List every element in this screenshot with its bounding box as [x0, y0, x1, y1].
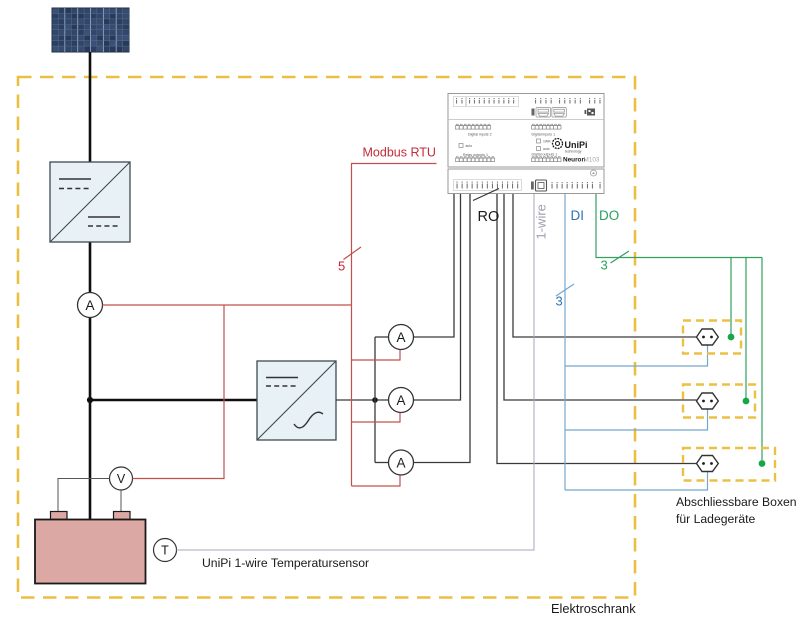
svg-text:Modbus RTU: Modbus RTU — [363, 146, 436, 160]
svg-text:A: A — [396, 393, 405, 408]
temperature sensor T1 — [154, 539, 177, 562]
DC/DC converter U1 — [50, 162, 130, 242]
svg-text:V: V — [117, 472, 126, 486]
wire Modbus branch to A1 — [352, 350, 401, 360]
svg-text:technology: technology — [565, 150, 582, 154]
svg-text:DO: DO — [599, 208, 619, 223]
bus width marker 3 (DI) — [556, 284, 574, 296]
bus width marker 5 — [344, 247, 362, 260]
socket outlet X2 — [697, 393, 719, 409]
wire DI socket 3 — [565, 472, 708, 491]
wire bus to A3 — [375, 462, 389, 464]
wire DO lamp 2 — [745, 258, 747, 399]
bus width marker 3 (DO) — [611, 251, 630, 263]
svg-text:M103: M103 — [584, 157, 600, 164]
wire relay output to socket 2 — [504, 194, 697, 400]
svg-text:3: 3 — [601, 258, 608, 273]
lockable box 3 — [683, 448, 775, 481]
wire Modbus branch to voltmeter — [133, 305, 225, 479]
wire Modbus branch to A3 — [352, 475, 401, 486]
wire A3 to relay output — [414, 194, 471, 463]
svg-text:UniPi: UniPi — [565, 140, 588, 150]
voltmeter V1 — [110, 467, 133, 490]
svg-text:3: 3 — [556, 294, 563, 309]
indicator lamp L2 — [743, 398, 750, 405]
socket outlet X1 — [697, 329, 719, 345]
wire node to inverter input — [89, 399, 257, 402]
svg-text:UniPi 1-wire Temperatursensor: UniPi 1-wire Temperatursensor — [202, 556, 369, 570]
svg-text:Digital inputs 1: Digital inputs 1 — [532, 133, 556, 137]
wire Modbus RTU bus (red) — [352, 164, 437, 487]
wire ammeter to battery — [89, 318, 92, 520]
wire DI socket 2 — [565, 409, 708, 430]
indicator lamp L3 — [759, 460, 766, 467]
PLC UniPi Neuron M103 — [448, 94, 604, 194]
indicator lamp L1 — [728, 334, 735, 341]
wire DO lamp 1 — [730, 258, 732, 335]
wire A1 to relay output — [414, 194, 455, 337]
svg-text:Digital outputs 1: Digital outputs 1 — [532, 152, 558, 156]
wire voltmeter to battery - terminal — [120, 490, 122, 512]
wire relay output to socket 1 — [513, 194, 697, 337]
ammeter A2 — [389, 388, 414, 413]
wire Modbus branch to A2 — [352, 413, 401, 422]
socket outlet X3 — [697, 456, 719, 472]
wire bus to A1 — [375, 336, 389, 338]
svg-text:Elektroschrank: Elektroschrank — [551, 601, 636, 616]
svg-text:für Ladegeräte: für Ladegeräte — [676, 512, 756, 526]
svg-text:RO: RO — [478, 209, 500, 225]
svg-text:T: T — [161, 544, 169, 558]
wire inverter output to ammeter bus — [336, 399, 389, 401]
wire voltmeter to battery + terminal — [58, 479, 110, 512]
svg-text:Neuron: Neuron — [563, 157, 585, 164]
junction node on battery bus — [87, 397, 93, 403]
wire T1 to 1-wire port — [177, 194, 535, 550]
enclosure Elektroschrank — [18, 77, 636, 616]
svg-text:auto: auto — [466, 144, 473, 148]
wire DI socket 1 — [565, 345, 708, 366]
svg-text:5: 5 — [338, 259, 345, 274]
wire DI bus (blue) — [564, 194, 566, 490]
battery BT1 — [35, 512, 146, 584]
svg-text:1-wire: 1-wire — [534, 204, 549, 239]
solar panel PV1 — [52, 8, 129, 52]
wire DO bus (green) — [596, 194, 762, 258]
svg-text:Digital inputs 2: Digital inputs 2 — [468, 133, 492, 137]
wire AC distribution bus vertical — [374, 337, 376, 463]
svg-text:Abschliessbare Boxen: Abschliessbare Boxen — [676, 495, 797, 509]
wire Modbus to DC ammeter — [103, 304, 352, 306]
svg-text:A: A — [396, 455, 405, 470]
wire PV to DC/DC converter — [89, 52, 92, 162]
svg-text:A: A — [85, 298, 94, 313]
ammeter A1 — [389, 325, 414, 350]
wire A2 to relay output — [414, 194, 461, 400]
lockable box 1 — [683, 321, 741, 354]
svg-text:1WR: 1WR — [543, 140, 551, 144]
wire DO lamp 3 — [761, 258, 763, 461]
wire relay output to socket 3 — [497, 194, 697, 464]
inverter U2 DC/AC — [257, 361, 336, 440]
svg-text:A: A — [396, 330, 405, 345]
junction node AC bus — [372, 397, 378, 403]
wire DC/DC to ammeter A (top) — [89, 242, 92, 293]
lockable box 2 — [683, 385, 755, 418]
ammeter A (DC) — [78, 293, 103, 318]
svg-text:auto: auto — [543, 147, 550, 151]
ammeter A3 — [389, 450, 414, 475]
svg-text:DI: DI — [571, 208, 585, 223]
bundle marker RO — [473, 189, 499, 201]
